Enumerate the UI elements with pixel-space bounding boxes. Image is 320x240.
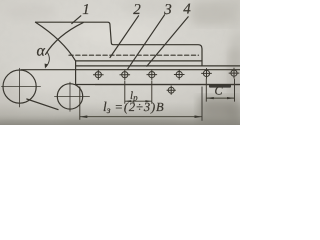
- svg-text:1: 1: [82, 2, 90, 18]
- roller 6: [229, 68, 240, 79]
- alpha arc: [46, 52, 49, 66]
- hopper top edge with step down to trough top and rounded right corner: [36, 22, 203, 65]
- roller 4: [174, 69, 185, 80]
- belt line C (top run from big pulley): [21, 69, 240, 71]
- return roller: [167, 86, 176, 95]
- alpha arc arrowhead: [45, 64, 48, 69]
- small pulley: [57, 84, 82, 109]
- svg-text:α: α: [37, 43, 46, 60]
- dimensions: [80, 79, 235, 121]
- hopper left wall D1: [36, 22, 76, 61]
- leader of label 4: [147, 17, 188, 66]
- svg-text:2: 2: [133, 2, 141, 18]
- roller 5: [201, 68, 212, 79]
- belt line B: [76, 65, 240, 67]
- l3 extension lines: [80, 87, 202, 121]
- leader of label 3: [128, 15, 165, 69]
- roller 1: [93, 69, 104, 80]
- C arrows: [206, 97, 214, 99]
- svg-text:4: 4: [183, 2, 191, 18]
- leader of label 2: [110, 16, 139, 58]
- lp dimension line: [125, 100, 152, 102]
- frame bottom line: [76, 84, 240, 86]
- paper background: [0, 0, 240, 125]
- l3 dimension line: [80, 116, 202, 118]
- C dimension line: [206, 97, 234, 99]
- leader of label 1: [72, 16, 81, 24]
- bottom shadow band: [0, 102, 240, 125]
- svg-text:lз =(2÷3)В: lз =(2÷3)В: [103, 99, 165, 116]
- incline line D2 (angle alpha): [46, 23, 84, 55]
- svg-text:3: 3: [163, 2, 172, 18]
- roller 2: [120, 69, 131, 80]
- paper mottle blotches: [0, 0, 246, 127]
- roller 3: [147, 69, 158, 80]
- belt line A (trough bottom): [76, 60, 202, 62]
- big pulley centerlines: [2, 68, 41, 107]
- frame left edge: [75, 61, 77, 85]
- C extension lines: [206, 79, 234, 102]
- belt lower tangent: [27, 99, 58, 110]
- top-right faint print-through: [192, 0, 240, 26]
- svg-text:C: C: [215, 83, 224, 97]
- dashed material level line: [69, 54, 199, 56]
- dark scan bar on frame bottom right: [209, 84, 231, 87]
- big pulley: [3, 70, 36, 103]
- small pulley centerlines: [55, 82, 90, 111]
- rollers: [93, 68, 239, 95]
- lp arrows: [125, 100, 131, 102]
- lp extension lines: [125, 81, 152, 104]
- l3 arrows: [80, 115, 88, 118]
- bottom-right darker corner: [198, 96, 240, 125]
